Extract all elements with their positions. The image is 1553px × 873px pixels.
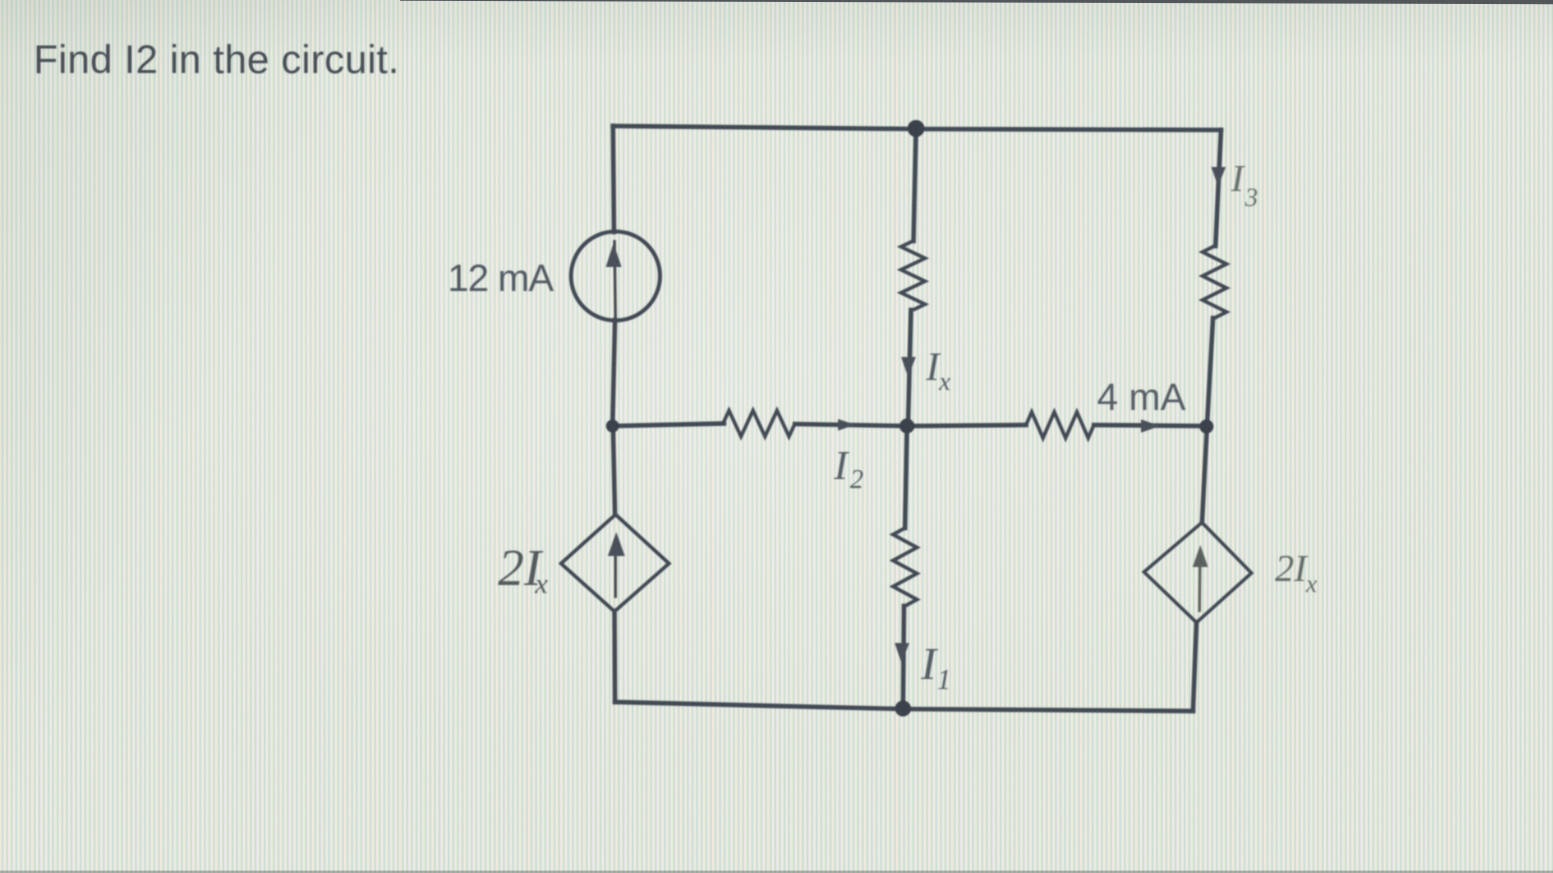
dependent current source 2Ix right (diamond) — [1144, 523, 1252, 623]
wire right branch middle (R5 down to node MR) — [1207, 318, 1213, 426]
node dot middle-right (MR) — [1200, 420, 1214, 434]
label 2Ix left — [498, 540, 548, 600]
node dot bottom-middle (BM) — [895, 701, 911, 717]
current arrow I3 (pointing down) — [1211, 167, 1226, 186]
arrow shaft inside left diamond — [614, 552, 617, 598]
dependent current source 2Ix left (diamond) — [561, 515, 669, 612]
arrow shaft inside right diamond — [1198, 562, 1201, 612]
wire middle rail (R2 to node MM) — [795, 424, 907, 426]
arrowhead inside right diamond (pointing up) — [1193, 545, 1208, 567]
label 2Ix right — [1275, 548, 1317, 598]
resistor R2 middle rail (I2 branch) — [723, 411, 795, 437]
node dot top-middle (TM) — [908, 120, 925, 137]
wire top rail (TL corner to TR corner) — [613, 126, 1221, 130]
node dot middle-middle (MM) — [900, 419, 915, 434]
wire left branch upper (TL corner down to source) — [613, 126, 614, 232]
arrowhead inside 12 mA source (pointing up) — [606, 243, 622, 267]
wire right branch lower (MR down to right diamond) — [1202, 426, 1207, 523]
arrow shaft inside 12 mA source — [615, 240, 616, 318]
resistor R3 middle rail (4 mA branch) — [1026, 412, 1094, 438]
wire left branch bottom (diamond to BL corner) — [612, 611, 617, 702]
label Ix — [925, 344, 951, 396]
current arrow I2 (pointing right) — [838, 419, 855, 431]
wire middle branch bottom (R4 down to node BM) — [903, 606, 904, 709]
resistor R4 lower-middle branch (I1 branch) — [893, 528, 917, 606]
wire right branch upper (TR corner down to resistor R5) — [1216, 130, 1222, 246]
current arrow I1 (pointing down) — [895, 643, 910, 663]
current arrow Ix (pointing down) — [901, 357, 916, 377]
current arrow 4 mA (pointing right) — [1141, 419, 1160, 432]
wire left branch lower (ML down to left diamond) — [613, 426, 615, 515]
wire middle branch upper (TM node down to resistor) — [914, 129, 917, 241]
wire middle rail left (ML to resistor R2) — [612, 424, 724, 427]
label I2 — [833, 442, 864, 494]
label I1 — [920, 638, 951, 696]
wire left branch middle (source to node ML) — [613, 320, 616, 426]
wire bottom rail (BL corner to BR corner) — [615, 702, 1193, 711]
wire middle branch (resistor down to node MM) — [908, 310, 911, 426]
wire middle rail right (R3 to node MR) — [1094, 425, 1207, 426]
current source 12 mA (circle) — [571, 232, 660, 321]
resistor R5 right branch (I3 branch) — [1203, 246, 1227, 318]
wire middle rail (MM to resistor R3) — [907, 425, 1026, 426]
arrowhead inside left diamond (pointing up) — [608, 532, 625, 556]
label I3 — [1230, 158, 1258, 212]
wire middle branch lower (MM down to resistor R4) — [905, 426, 907, 528]
wire right branch bottom (diamond to BR corner) — [1193, 622, 1197, 711]
resistor R1 top-middle branch — [901, 241, 925, 310]
node dot middle-left (ML) — [606, 420, 619, 433]
